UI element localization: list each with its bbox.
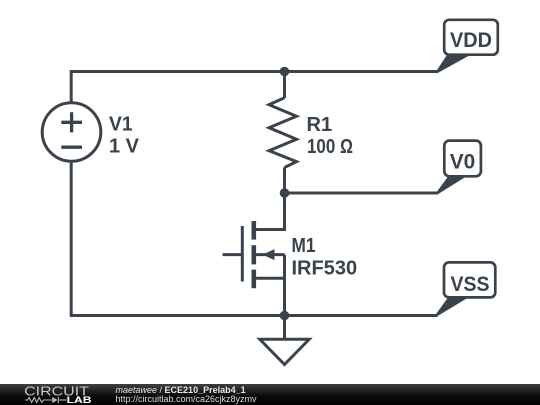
svg-text:100 Ω: 100 Ω <box>307 136 353 158</box>
svg-text:LAB: LAB <box>67 396 92 405</box>
svg-text:V0: V0 <box>450 151 476 174</box>
svg-text:R1: R1 <box>307 114 333 136</box>
svg-text:IRF530: IRF530 <box>292 258 358 280</box>
svg-text:M1: M1 <box>292 235 316 257</box>
svg-text:1 V: 1 V <box>109 135 140 157</box>
svg-text:V1: V1 <box>109 114 133 136</box>
svg-text:VSS: VSS <box>451 273 490 296</box>
svg-text:http://circuitlab.com/ca26cjkz: http://circuitlab.com/ca26cjkz8yzmv <box>116 394 258 404</box>
svg-text:VDD: VDD <box>450 29 492 52</box>
